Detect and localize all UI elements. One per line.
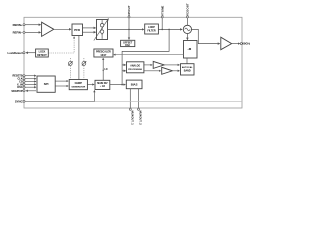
svg-text:MUXOUT_2: MUXOUT_2 bbox=[139, 111, 143, 126]
svg-text:OSC: OSC bbox=[17, 86, 23, 89]
wire comparator1 to autocal bbox=[164, 64, 179, 66]
svg-text:PROCESSING: PROCESSING bbox=[128, 69, 142, 71]
svg-text:SPI: SPI bbox=[44, 82, 49, 86]
wire main div to prescaler bbox=[102, 58, 104, 80]
svg-text:REFIN−: REFIN− bbox=[13, 31, 23, 35]
pin CPOUT (top) bbox=[127, 5, 131, 29]
dashed wire lock detect to PFD bbox=[48, 37, 74, 53]
prescaler bbox=[94, 49, 113, 57]
wire sense to analog processing in2 bbox=[122, 70, 126, 72]
SPI block bbox=[37, 76, 55, 92]
node sense junction bbox=[168, 29, 170, 31]
svg-text:DAC: DAC bbox=[125, 44, 130, 47]
svg-text:÷M: ÷M bbox=[187, 47, 192, 51]
node VTUNE junction bbox=[161, 29, 163, 31]
comparator A3 bbox=[162, 67, 173, 74]
svg-text:60GHz: 60GHz bbox=[242, 42, 250, 46]
chirp generator bbox=[69, 80, 87, 90]
offset DAC bbox=[121, 40, 135, 47]
pin REFIN- bbox=[13, 31, 41, 35]
svg-text:VCOOUT: VCOOUT bbox=[186, 3, 190, 16]
autocal band block bbox=[181, 64, 195, 75]
pin REFIN+ bbox=[13, 23, 41, 27]
wire SPI to chirp gen 1 bbox=[55, 80, 68, 82]
wire sync branch to main div bbox=[93, 90, 95, 101]
pin CLK bbox=[17, 78, 36, 81]
pin RESETB bbox=[12, 75, 36, 78]
wire PFD DN to CP bbox=[83, 31, 96, 33]
pin RF out bbox=[232, 42, 252, 46]
pin VTUNE (top) bbox=[160, 6, 164, 30]
wire VCO to divider M bbox=[186, 34, 188, 40]
svg-text:ANALOG: ANALOG bbox=[130, 65, 140, 68]
wire chirp gen to main div bbox=[87, 84, 94, 86]
chip outline bbox=[24, 17, 242, 108]
svg-text:PFD: PFD bbox=[74, 28, 80, 32]
svg-text:LockDetect: LockDetect bbox=[8, 51, 23, 55]
current source I1 bbox=[68, 58, 72, 80]
svg-text:BAND: BAND bbox=[184, 69, 191, 72]
divider M bbox=[184, 41, 198, 59]
pin X_IN bbox=[17, 83, 36, 86]
node sense to bias junction bbox=[121, 84, 123, 86]
analog processing bbox=[127, 62, 144, 73]
wire AP to comparator 1 bbox=[144, 64, 152, 66]
wire sense to analog processing in1 bbox=[122, 64, 126, 66]
wire AP to comparator 2 bbox=[144, 70, 161, 72]
wire loop filter to VCO bbox=[158, 28, 182, 30]
svg-text:BIAS: BIAS bbox=[131, 82, 138, 86]
bias mux block bbox=[126, 80, 142, 89]
svg-text:LO: LO bbox=[104, 69, 107, 71]
svg-text:SDO/PUP: SDO/PUP bbox=[11, 90, 23, 93]
output amp A4 bbox=[221, 37, 232, 50]
wire buffer to PFD bbox=[54, 28, 71, 30]
wire SPI to chirp gen 2 bbox=[55, 85, 68, 87]
VCO U2 bbox=[183, 25, 191, 33]
comparator A2 bbox=[153, 61, 164, 68]
svg-text:VTUNE: VTUNE bbox=[160, 6, 164, 16]
PFD U1 bbox=[72, 24, 83, 36]
wire CP to loop filter bbox=[108, 28, 144, 30]
current source I2 bbox=[82, 58, 86, 80]
wire PFD UP to CP bbox=[83, 27, 96, 29]
svg-text:CHIRP: CHIRP bbox=[75, 82, 83, 85]
lock detect bbox=[36, 49, 49, 57]
svg-text:MUXOUT_1: MUXOUT_1 bbox=[130, 111, 134, 126]
loop filter bbox=[145, 24, 159, 34]
pin MUXOUT1 (bottom) bbox=[129, 89, 134, 126]
pin OSC bbox=[17, 86, 36, 89]
pin MUXOUT2 (bottom) bbox=[138, 89, 143, 126]
wire divider M to autocal bbox=[186, 58, 188, 64]
pin SYNC (left) bbox=[15, 99, 242, 103]
wire comparator2 to autocal bbox=[172, 70, 179, 72]
svg-text:GENERATOR: GENERATOR bbox=[71, 85, 85, 88]
svg-text:MAIN DIV: MAIN DIV bbox=[97, 82, 108, 85]
pin SDO/PUP bbox=[11, 90, 36, 93]
wire vtune sense path down-left bbox=[122, 29, 169, 84]
pin CSB bbox=[19, 80, 36, 83]
svg-text:SYNC: SYNC bbox=[15, 99, 23, 103]
wire VCO out to amp bbox=[192, 29, 220, 43]
svg-text:16/17: 16/17 bbox=[100, 54, 107, 57]
buffer amp A1 bbox=[42, 22, 54, 36]
pin LockDetect (left) bbox=[8, 51, 36, 55]
wire feedback to prescaler bbox=[114, 54, 184, 56]
pin VCOOUT (top) bbox=[186, 3, 190, 25]
wire CPOUT node to offset DAC bbox=[128, 30, 130, 40]
svg-text:DETECT: DETECT bbox=[37, 54, 47, 57]
wire PFD to chirp gen vertical bbox=[78, 36, 80, 80]
svg-text:CPOUT: CPOUT bbox=[127, 5, 131, 16]
wire main div to bias mux bbox=[110, 84, 126, 86]
main divider bbox=[95, 80, 110, 89]
svg-text:÷ 1/2: ÷ 1/2 bbox=[100, 85, 106, 88]
node CPOUT junction bbox=[128, 29, 130, 31]
charge pump CP bbox=[94, 19, 109, 41]
svg-text:FILTER: FILTER bbox=[147, 30, 155, 33]
svg-text:REFIN+: REFIN+ bbox=[13, 23, 23, 27]
